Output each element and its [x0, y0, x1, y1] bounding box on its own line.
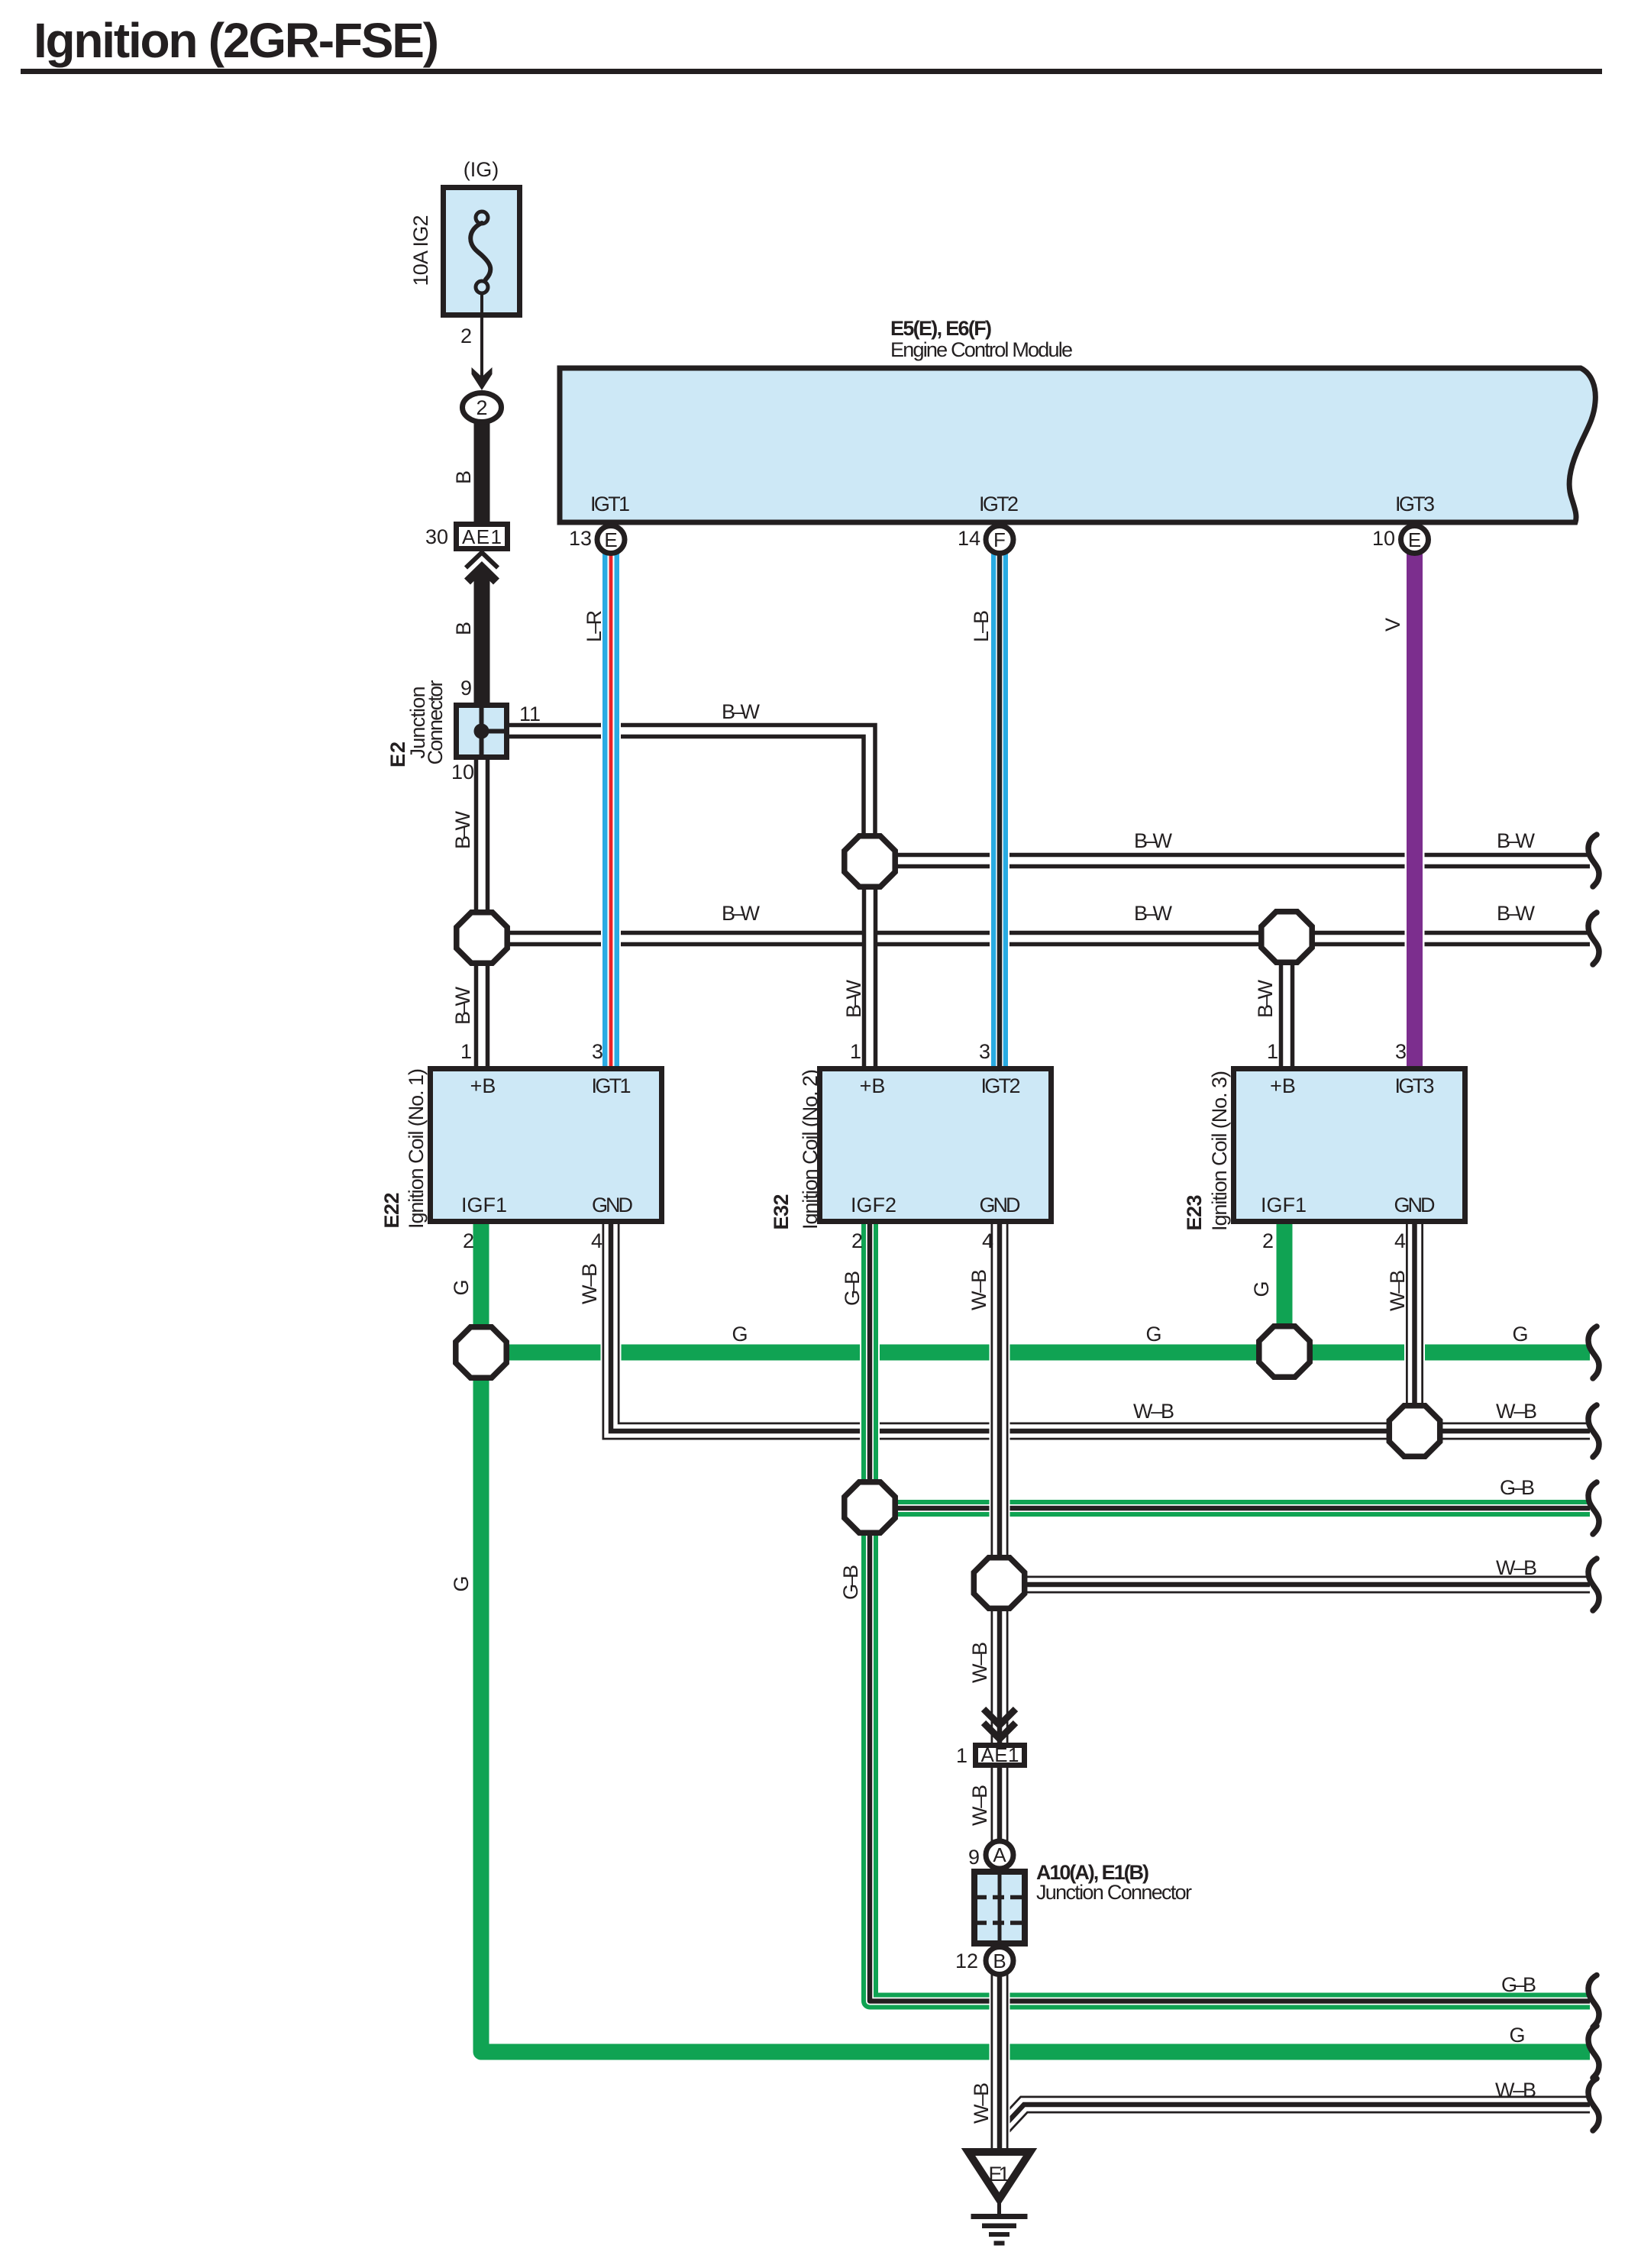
svg-text:4: 4 [1394, 1229, 1406, 1252]
wire W-B: octagon H down to AE1 connector [990, 1607, 1010, 1746]
chevron arrow down above AE1 bottom (lower) [984, 1723, 1016, 1739]
svg-text:E: E [604, 528, 617, 551]
svg-text:4: 4 [591, 1229, 602, 1252]
wire break symbol G bus [1588, 1326, 1599, 1378]
ground stem [997, 2199, 1001, 2216]
svg-text:F: F [993, 528, 1006, 551]
svg-text:9: 9 [968, 1846, 980, 1869]
wire G: coil3 IGF1 pin 2 to octagon E [1277, 1222, 1293, 1352]
ignition coil 3 box E23 [1234, 1069, 1465, 1222]
svg-text:2: 2 [463, 1229, 474, 1252]
svg-text:+B: +B [860, 1074, 886, 1097]
svg-text:Ignition Coil (No. 2): Ignition Coil (No. 2) [799, 1069, 822, 1229]
svg-text:GND: GND [1394, 1194, 1436, 1216]
wire W-B: junction connector pin B down to ground E1 [990, 1943, 1010, 2155]
svg-text:IGT3: IGT3 [1395, 1074, 1435, 1097]
svg-text:+B: +B [1270, 1074, 1296, 1097]
svg-text:G–B: G–B [1500, 1476, 1535, 1499]
ignition coil 2 box E32 [820, 1069, 1051, 1222]
svg-text:IGT1: IGT1 [592, 1074, 632, 1097]
svg-text:W–B: W–B [968, 1642, 991, 1683]
svg-text:G–B: G–B [1501, 1973, 1536, 1996]
wire break symbol B-W run C [1588, 913, 1599, 964]
wire break symbol B-W run B [1588, 835, 1599, 887]
wire W-B: coil2 GND pin 4 down to octagon H [990, 1222, 1010, 1556]
svg-text:W–B: W–B [968, 1785, 991, 1826]
svg-text:E23: E23 [1183, 1195, 1206, 1231]
wire B-W run B: octagon B to right break [870, 853, 1590, 869]
fuse box 10A IG2 [444, 188, 520, 315]
svg-text:IGF1: IGF1 [1261, 1194, 1307, 1216]
svg-text:IGT1: IGT1 [590, 493, 630, 515]
junction connector pin circle 12 B [986, 1947, 1013, 1975]
svg-text:G: G [450, 1575, 473, 1591]
junction octagon H (W-B) [974, 1558, 1024, 1608]
fuse element symbol [476, 212, 488, 224]
svg-text:10: 10 [1372, 527, 1395, 550]
junction connector pin circle 9 A [986, 1841, 1013, 1869]
svg-text:2: 2 [851, 1229, 863, 1252]
svg-text:G: G [450, 1279, 473, 1295]
wire break symbol G-B run [1588, 1482, 1599, 1534]
ECM box E5(E),E6(F) Engine Control Module [560, 368, 1595, 522]
svg-text:W–B: W–B [1133, 1400, 1174, 1423]
svg-text:9: 9 [460, 677, 472, 699]
svg-text:13: 13 [569, 527, 592, 550]
wire break symbol G bottom run [1588, 2026, 1599, 2078]
svg-text:IGT3: IGT3 [1395, 493, 1435, 515]
ground symbol E1 triangle [968, 2152, 1030, 2199]
wire B-W: octagon C down to coil3 pin 1 [1279, 937, 1295, 1068]
svg-text:4: 4 [982, 1229, 993, 1252]
wire G: horizontal run to break (bottom) [489, 2044, 1590, 2060]
svg-text:Junction Connector: Junction Connector [1036, 1881, 1192, 1904]
ECM pin circle 13 E [597, 526, 625, 554]
oval female connector 2 [463, 393, 502, 422]
svg-text:E32: E32 [770, 1194, 793, 1230]
svg-text:B–W: B–W [451, 986, 474, 1025]
wire G-B run: octagon F to right break [870, 1500, 1590, 1517]
chevron arrow up below AE1 (thin) [466, 553, 498, 568]
wire W-B bottom run: jog from vertical then right to break [1002, 2105, 1590, 2128]
connector AE1 box (pin 30) [457, 525, 508, 549]
junction octagon A (B-W) [457, 913, 507, 963]
junction octagon G (W-B) [1389, 1406, 1439, 1456]
junction connector A10(A),E1(B) box [974, 1872, 1025, 1943]
svg-text:W–B: W–B [970, 2082, 993, 2124]
svg-text:G: G [732, 1323, 748, 1346]
svg-text:10A IG2: 10A IG2 [409, 215, 432, 286]
svg-text:3: 3 [979, 1040, 990, 1063]
svg-text:2: 2 [476, 396, 487, 419]
svg-text:IGF2: IGF2 [851, 1194, 896, 1216]
svg-text:1: 1 [850, 1040, 861, 1063]
svg-text:A: A [993, 1843, 1006, 1866]
svg-text:G: G [1145, 1323, 1161, 1346]
junction connector E2 box [457, 706, 507, 758]
svg-text:Ignition Coil (No. 1): Ignition Coil (No. 1) [405, 1068, 428, 1229]
svg-text:G–B: G–B [839, 1565, 862, 1600]
ground hatch bars [971, 2214, 1028, 2219]
svg-text:1: 1 [460, 1040, 472, 1063]
svg-text:E5(E), E6(F): E5(E), E6(F) [890, 317, 992, 340]
svg-text:AE1: AE1 [981, 1743, 1019, 1766]
wire L-B: ECM pin 14 to coil2 IGT2 pin 3 [990, 547, 1009, 1068]
wire W-B: coil1 GND down then right to break through octagon G [611, 1222, 1590, 1431]
svg-text:IGF1: IGF1 [461, 1194, 507, 1216]
wire W-B: coil3 GND pin 4 down to octagon G [1404, 1222, 1425, 1405]
svg-text:IGT2: IGT2 [979, 493, 1019, 515]
wire V: ECM pin 10 to coil3 IGT3 pin 3 [1405, 547, 1425, 1068]
svg-text:L–R: L–R [583, 610, 606, 642]
wire B-W: octagon B down to coil2 pin 1 [862, 861, 878, 1068]
svg-text:B–W: B–W [1497, 829, 1536, 852]
wire W-B run: octagon H right to break [1000, 1575, 1590, 1595]
svg-text:11: 11 [519, 703, 541, 725]
wire break symbol W-B run [1588, 1405, 1599, 1457]
svg-text:12: 12 [955, 1950, 978, 1972]
svg-text:GND: GND [980, 1194, 1021, 1216]
svg-text:W–B: W–B [1495, 2079, 1536, 2102]
svg-text:1: 1 [1267, 1040, 1278, 1063]
junction octagon F (G-B) [845, 1482, 895, 1533]
svg-text:B–W: B–W [722, 700, 761, 723]
wire B-W run A: E2 pin 11 to junction octagon B (elbow) [504, 731, 870, 861]
svg-text:W–B: W–B [578, 1263, 601, 1304]
wire G: octagon D down, corner, joins bottom G run [481, 1352, 498, 2052]
svg-text:W–B: W–B [1386, 1270, 1409, 1311]
svg-text:B–W: B–W [842, 979, 865, 1018]
chevron arrow up below AE1 (filled) [464, 561, 499, 585]
svg-text:B–W: B–W [1497, 902, 1536, 925]
svg-text:1: 1 [956, 1744, 967, 1767]
svg-text:V: V [1381, 618, 1404, 632]
chevron arrow down above AE1 bottom (upper) [984, 1709, 1016, 1725]
wire B-W: E2 pin 10 down through octagon A to coil1 pin 1 [474, 758, 490, 1068]
wire G-B: coil2 IGF2 pin 2 down through octagon F, corner, joins bottom G-B run [870, 1222, 887, 2001]
svg-text:10: 10 [451, 761, 474, 783]
svg-text:Ignition Coil (No. 3): Ignition Coil (No. 3) [1208, 1071, 1231, 1231]
svg-text:14: 14 [958, 527, 980, 550]
junction octagon B (B-W) [845, 836, 895, 887]
svg-text:B: B [452, 470, 475, 484]
wire W-B: AE1 connector to junction connector pin A [990, 1764, 1010, 1875]
ECM pin circle 14 F [986, 526, 1013, 554]
svg-text:(IG): (IG) [464, 158, 499, 181]
junction octagon E (G) [1259, 1326, 1310, 1377]
svg-text:3: 3 [1395, 1040, 1407, 1063]
svg-text:L–B: L–B [970, 610, 993, 642]
svg-text:B–W: B–W [451, 810, 474, 849]
wire from fuse pin 2 (thin) [480, 292, 483, 380]
E2 junction dot [474, 724, 489, 739]
svg-text:B–W: B–W [1254, 979, 1277, 1018]
ignition coil 1 box E22 [431, 1069, 662, 1222]
junction octagon D (G) [456, 1327, 506, 1378]
svg-text:E22: E22 [380, 1193, 403, 1229]
wire L-R: ECM pin 13 to coil1 IGT1 pin 3 [601, 547, 621, 1068]
arrow down to oval connector 2 [472, 367, 493, 390]
wire B: oval to AE1 box [474, 418, 490, 525]
junction octagon C (B-W) [1261, 912, 1312, 962]
ECM pin circle 10 E [1401, 526, 1429, 554]
wire G bus: octagon D right to break through octagon E [481, 1345, 1590, 1361]
svg-text:IGT2: IGT2 [981, 1074, 1021, 1097]
svg-text:2: 2 [460, 325, 472, 347]
svg-text:W–B: W–B [967, 1269, 990, 1310]
svg-text:G–B: G–B [841, 1271, 864, 1306]
svg-text:Connector: Connector [424, 680, 447, 765]
wire B-W run C: octagon A to right break through octagon C [482, 931, 1590, 947]
svg-text:B: B [452, 622, 475, 635]
wire G-B: horizontal run to break (bottom) [878, 1993, 1590, 2010]
svg-text:3: 3 [592, 1040, 603, 1063]
svg-text:G: G [1512, 1323, 1528, 1346]
connector AE1 box (pin 1) [976, 1746, 1025, 1766]
title underline [21, 69, 1602, 74]
wire break symbol W-B bottom run [1588, 2079, 1599, 2131]
svg-text:+B: +B [470, 1074, 496, 1097]
svg-text:W–B: W–B [1496, 1556, 1537, 1579]
svg-text:Engine Control Module: Engine Control Module [890, 338, 1073, 361]
wire G: coil1 IGF1 pin 2 to octagon D [473, 1222, 489, 1352]
svg-text:G: G [1250, 1281, 1273, 1297]
svg-text:Ignition (2GR-FSE): Ignition (2GR-FSE) [34, 13, 439, 68]
A10/E1 dashed separators [975, 1895, 1024, 1900]
svg-text:B–W: B–W [1134, 829, 1173, 852]
E2 internal bus lines [480, 705, 484, 757]
wire break symbol W-B run 2 [1588, 1559, 1599, 1611]
wire B: AE1 box to E2 junction connector [474, 572, 490, 706]
svg-text:E1: E1 [989, 2163, 1010, 2186]
svg-text:B–W: B–W [1134, 902, 1173, 925]
svg-text:B–W: B–W [722, 902, 761, 925]
svg-text:B: B [993, 1950, 1006, 1972]
svg-text:E: E [1408, 528, 1421, 551]
wire break symbol G-B bottom run [1588, 1976, 1599, 2027]
svg-text:AE1: AE1 [462, 525, 502, 548]
svg-text:W–B: W–B [1496, 1400, 1537, 1423]
svg-text:30: 30 [425, 525, 448, 548]
svg-text:GND: GND [592, 1194, 633, 1216]
svg-text:G: G [1509, 2024, 1525, 2047]
svg-text:2: 2 [1262, 1229, 1274, 1252]
A10/E1 internal bus line [998, 1872, 1002, 1943]
